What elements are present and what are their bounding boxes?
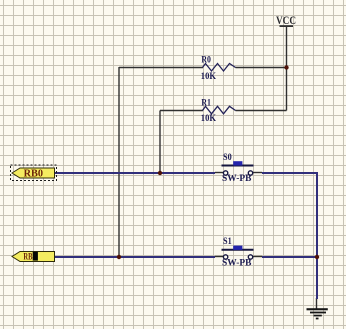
svg-text:10K: 10K — [201, 114, 217, 124]
svg-text:10K: 10K — [201, 72, 217, 82]
svg-text:R1: R1 — [201, 97, 211, 107]
svg-text:SW-PB: SW-PB — [222, 257, 251, 267]
svg-text:S0: S0 — [223, 152, 232, 162]
svg-text:RB0: RB0 — [24, 168, 43, 179]
svg-text:R0: R0 — [201, 54, 211, 64]
svg-text:VCC: VCC — [276, 15, 296, 27]
svg-text:SW-PB: SW-PB — [222, 173, 251, 183]
svg-text:RB: RB — [23, 252, 32, 262]
svg-text:S1: S1 — [223, 236, 232, 246]
